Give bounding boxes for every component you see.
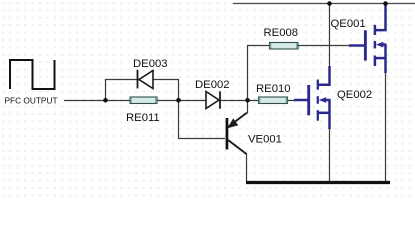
svg-text:PFC OUTPUT: PFC OUTPUT bbox=[5, 96, 58, 106]
wire: DE003 bypass branch bbox=[106, 80, 179, 102]
mosfet QE001 bbox=[349, 5, 387, 73]
wire: top supply rail bbox=[233, 3, 415, 5]
svg-text:RE011: RE011 bbox=[126, 112, 160, 124]
svg-text:VE001: VE001 bbox=[248, 134, 282, 146]
wire: VE001 collector to ground bbox=[246, 154, 248, 182]
mosfet QE002 bbox=[294, 66, 331, 129]
node: rail/QE001 drain bbox=[383, 1, 388, 6]
wire: rail to QE001 drain (short) bbox=[385, 4, 387, 8]
resistor RE010 bbox=[259, 97, 288, 104]
wire: VE001 emitter up to node bbox=[247, 100, 249, 114]
resistor RE008 bbox=[270, 43, 299, 50]
diode DE002 bbox=[206, 91, 220, 109]
svg-text:DE002: DE002 bbox=[195, 79, 230, 91]
transistor VE001 bbox=[226, 113, 247, 154]
svg-text:DE003: DE003 bbox=[133, 58, 168, 70]
waveform source PFC OUTPUT bbox=[5, 60, 58, 106]
wire: RE008 to QE001 gate bbox=[298, 45, 356, 47]
wire: QE001 source to ground bbox=[385, 72, 387, 182]
svg-text:QE001: QE001 bbox=[331, 18, 366, 30]
diode DE003 bbox=[138, 70, 154, 89]
wire: RE008 branch vertical x=247 bbox=[248, 46, 270, 102]
wire: VE001 base wire bbox=[179, 100, 226, 139]
node: DE002/RE010/RE008/VE001 junction bbox=[245, 98, 250, 103]
svg-text:RE008: RE008 bbox=[264, 27, 299, 39]
wire: rail to QE002 drain bbox=[329, 4, 331, 68]
wire: main horizontal net at y=100 bbox=[64, 100, 298, 102]
node: main/DE003 left junction bbox=[103, 98, 108, 103]
resistor RE011 bbox=[130, 97, 157, 104]
ground bus bbox=[246, 181, 390, 184]
wire: QE002 source to ground bbox=[329, 128, 331, 182]
node: main/DE003 right junction bbox=[176, 98, 181, 103]
node: rail/QE002 drain bbox=[327, 1, 332, 6]
svg-text:QE002: QE002 bbox=[337, 89, 372, 101]
svg-text:RE010: RE010 bbox=[256, 83, 291, 95]
